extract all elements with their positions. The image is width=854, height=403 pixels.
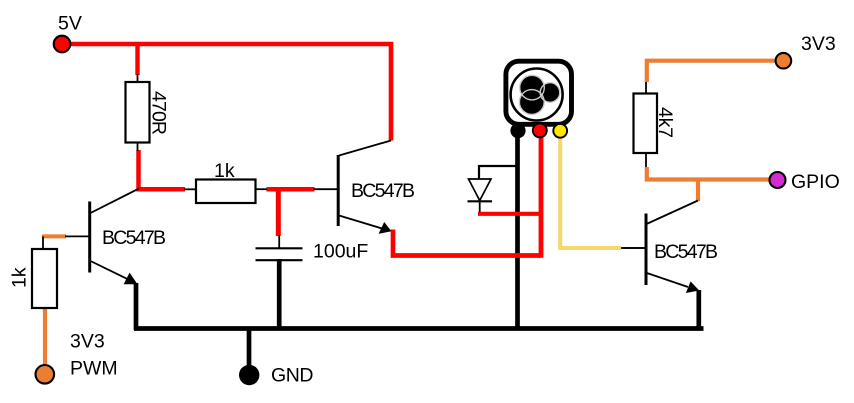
wire: ground bus (black): [134, 326, 704, 331]
wire: motor yellow lead to Q3 base (yellow): [560, 130, 621, 248]
wire: 4k7 bottom stub (black): [645, 153, 647, 167]
wire: 3V3 PWM input to 1k resistor (orange): [43, 307, 47, 366]
motor pin black: [510, 123, 525, 138]
svg-text:PWM: PWM: [70, 358, 118, 380]
wire: GPIO net drop to Q3 collector (orange): [696, 180, 700, 202]
transistor Q2 BC547B: [314, 141, 392, 234]
wire: 4k7 bottom to GPIO (orange): [647, 167, 769, 180]
wire: diode anode to motor black lead (black): [479, 166, 517, 179]
wire: diode cathode to motor red lead (red): [478, 212, 541, 216]
wire: 1k top stub (black): [42, 236, 44, 250]
wire: 470R bottom stub (black): [137, 142, 139, 151]
wire: motor black lead to ground bus: [515, 130, 520, 330]
wire: Q3 emitter to ground bus (black): [696, 290, 701, 330]
resistor R1 470R: [126, 82, 150, 143]
wire: capacitor bottom to ground bus (black): [277, 259, 282, 330]
diode D1: [468, 179, 493, 201]
svg-text:GPIO: GPIO: [791, 171, 840, 193]
svg-text:4k7: 4k7: [654, 107, 676, 138]
resistor R3 1k (base of Q1): [32, 249, 57, 308]
node 3V3 PWM: [36, 365, 55, 384]
wire: capacitor top stub (black): [278, 235, 280, 248]
svg-text:1k: 1k: [9, 267, 31, 288]
motor pin yellow: [553, 124, 567, 138]
svg-text:470R: 470R: [148, 91, 170, 135]
resistor R2 1k (base of Q2): [196, 180, 256, 204]
motor M1: [506, 61, 572, 124]
capacitor C1 100uF: [256, 248, 303, 260]
svg-text:GND: GND: [271, 365, 314, 387]
node GPIO: [770, 172, 786, 188]
wire: stub out of 1k right (black): [256, 188, 268, 190]
wire: 5V rail to Q2 collector (red): [62, 44, 391, 141]
wire: 1k resistor to Q1 base (orange): [42, 234, 66, 238]
wire: diode cathode stub (black): [479, 201, 481, 214]
motor pin red: [533, 123, 547, 137]
wire: GND stub (black): [247, 329, 252, 368]
svg-text:3V3: 3V3: [801, 33, 836, 55]
svg-text:3V3: 3V3: [70, 331, 105, 353]
wire: 3V3 to 4k7 resistor (orange): [647, 61, 775, 82]
wire: Q1 emitter to ground bus (black): [134, 283, 139, 330]
node 3V3: [776, 53, 792, 69]
svg-text:5V: 5V: [58, 13, 82, 35]
wire: 1k resistor to Q2 base (red): [267, 187, 315, 192]
wire: 5V rail drop to 470R (red): [135, 44, 139, 75]
wire: 470R bottom to node A and 1k resistor (red): [139, 150, 186, 189]
wire: node to capacitor top (red): [276, 187, 281, 236]
resistor R4 4k7: [634, 94, 658, 154]
wire: yellow to Q3 base stub (black): [621, 247, 645, 249]
svg-text:BC547B: BC547B: [351, 180, 415, 202]
wire: 470R top stub (black): [137, 74, 139, 83]
wire: 4k7 top stub (black): [645, 82, 647, 94]
node 5V: [54, 36, 71, 53]
node GND: [239, 365, 259, 385]
wire: Q2 emitter to motor red lead (red): [393, 230, 541, 256]
svg-text:BC547B: BC547B: [654, 241, 718, 263]
svg-text:1k: 1k: [214, 160, 235, 182]
svg-text:100uF: 100uF: [313, 241, 368, 263]
transistor Q1 BC547B: [65, 189, 139, 285]
wire: stub into 1k left (black): [184, 188, 196, 190]
wire: motor red lead down (red): [539, 130, 544, 258]
svg-text:BC547B: BC547B: [102, 227, 166, 249]
transistor Q3 BC547B: [623, 201, 699, 294]
